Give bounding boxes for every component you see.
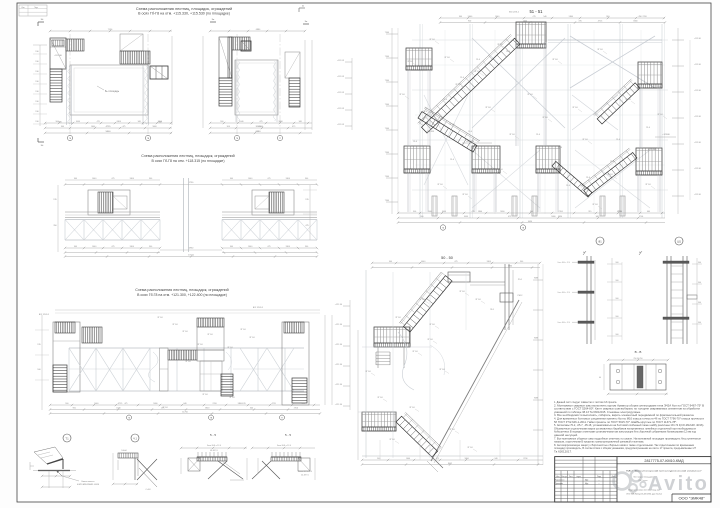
- plan A left stringer band: [66, 65, 68, 125]
- svg-text:Л1-6: Л1-6: [616, 139, 620, 141]
- svg-text:5800: 5800: [117, 121, 121, 123]
- svg-text:+115.530: +115.530: [466, 141, 475, 143]
- svg-text:Л1-6: Л1-6: [450, 159, 454, 161]
- svg-text:+121.30: +121.30: [335, 364, 343, 366]
- sec50 lower landing: [362, 412, 396, 431]
- svg-text:ЛГ1-8: ЛГ1-8: [527, 94, 533, 96]
- svg-text:ЛГ1-8: ЛГ1-8: [462, 194, 468, 196]
- row3 mid upper run: [197, 318, 224, 327]
- svg-text:5800: 5800: [152, 126, 156, 128]
- svg-text:5800: 5800: [278, 121, 282, 123]
- svg-text:ЛГ1-8: ЛГ1-8: [429, 324, 435, 326]
- svg-text:ЛГ1-8: ЛГ1-8: [582, 139, 588, 141]
- detail F1 bubble: [596, 237, 604, 245]
- svg-text:ЛГ1-8: ЛГ1-8: [607, 174, 613, 176]
- svg-text:900: 900: [74, 246, 77, 248]
- plan B axis line 2: [279, 34, 281, 134]
- svg-text:5 - 5: 5 - 5: [210, 433, 216, 437]
- plan A axis line G6: [69, 34, 71, 134]
- svg-text:ЛГ1-8: ЛГ1-8: [377, 397, 383, 399]
- svg-text:В1 12 В-1: В1 12 В-1: [509, 12, 520, 14]
- svg-text:6ь площадь: 6ь площадь: [105, 89, 120, 93]
- svg-text:900: 900: [227, 126, 230, 128]
- svg-text:Подп: Подп: [597, 476, 601, 478]
- row3 mid lower block: [200, 361, 222, 391]
- elevation axis bubble 2: [520, 225, 525, 230]
- svg-text:7500: 7500: [385, 152, 389, 154]
- svg-text:Л1-6: Л1-6: [558, 147, 562, 149]
- svg-text:5800: 5800: [130, 178, 134, 180]
- svg-text:ЛГ1-8: ЛГ1-8: [419, 299, 425, 301]
- svg-text:340: 340: [530, 211, 533, 213]
- row3 right dim lines: [324, 315, 326, 405]
- svg-text:ЛГ1-8: ЛГ1-8: [409, 407, 415, 409]
- row2 plan right half: [221, 180, 318, 254]
- svg-text:Л1-6: Л1-6: [476, 59, 480, 61]
- plan B top dim row: [210, 30, 305, 32]
- svg-text:2706: 2706: [212, 403, 216, 405]
- svg-text:9088: 9088: [534, 338, 538, 340]
- svg-text:2706: 2706: [639, 216, 643, 218]
- plan B top hatched run: [232, 37, 250, 50]
- plan A section flag top: [38, 21, 44, 23]
- plan A axis bubble 2: [145, 135, 150, 140]
- svg-text:+121.30: +121.30: [335, 324, 343, 326]
- svg-text:Болт М-Б х 12.0: Болт М-Б х 12.0: [558, 292, 570, 294]
- svg-text:5800: 5800: [500, 211, 504, 213]
- svg-text:11750: 11750: [182, 412, 188, 414]
- plan A top-left stair box: [50, 38, 66, 69]
- svg-text:60: 60: [599, 377, 601, 379]
- row3 plan top chord lines: [55, 309, 320, 311]
- row3 right tower: [282, 322, 309, 405]
- svg-text:ЛГ1-8: ЛГ1-8: [444, 57, 450, 59]
- svg-text:ЛГ1-8: ЛГ1-8: [429, 39, 435, 41]
- svg-text:900: 900: [74, 178, 77, 180]
- svg-text:+119.30: +119.30: [694, 168, 701, 170]
- svg-text:ЛГ1-8: ЛГ1-8: [227, 347, 233, 349]
- sec50 internal horizontals: [362, 346, 432, 348]
- svg-text:5800: 5800: [569, 16, 573, 18]
- svg-text:В осях Гб.Г8 на отм. +121.300,: В осях Гб.Г8 на отм. +121.300, +122.400 …: [137, 293, 227, 297]
- sec50 lower stair: [396, 412, 441, 457]
- svg-text:340: 340: [250, 408, 253, 410]
- title block: [555, 457, 711, 502]
- svg-text:5800: 5800: [487, 261, 491, 263]
- svg-text:ЛГ1-8: ЛГ1-8: [474, 71, 480, 73]
- row3 axis bubble 1: [127, 415, 132, 420]
- elevation light X bracing: [424, 95, 468, 185]
- svg-text:900: 900: [230, 246, 233, 248]
- svg-text:900: 900: [61, 126, 64, 128]
- plan B axis bubble 2: [277, 135, 282, 140]
- svg-text:ЛГ1-8: ЛГ1-8: [399, 94, 405, 96]
- svg-text:1640: 1640: [495, 16, 499, 18]
- svg-text:+115.53: +115.53: [337, 124, 345, 126]
- svg-text:Разработал: Разработал: [555, 479, 564, 481]
- detail Ch1 bubble: [131, 434, 139, 442]
- row3 left dim stack: [41, 315, 43, 410]
- svg-text:ЛГ1-8: ЛГ1-8: [542, 117, 548, 119]
- svg-text:Ф1: Ф1: [598, 240, 602, 244]
- svg-text:+121.300: +121.300: [648, 149, 657, 151]
- elevation platform legs: [407, 173, 409, 212]
- svg-text:340: 340: [299, 121, 302, 123]
- svg-text:ЛГ1-8: ЛГ1-8: [455, 84, 461, 86]
- elevation platform P1 top: [516, 22, 546, 48]
- svg-text:+121.30: +121.30: [335, 304, 343, 306]
- svg-text:Схема расположения лестниц, пл: Схема расположения лестниц, площадок, ог…: [141, 154, 234, 158]
- svg-text:+115.53: +115.53: [337, 60, 345, 62]
- elevation platform P5 right: [636, 148, 662, 175]
- svg-text:900: 900: [230, 178, 233, 180]
- svg-text:+121.30: +121.30: [335, 384, 343, 386]
- plan B bottom dim rows: [210, 122, 312, 124]
- svg-text:900: 900: [459, 16, 462, 18]
- elevation top beam: [548, 39, 662, 41]
- svg-text:5800: 5800: [633, 21, 637, 23]
- svg-text:7Г: 7Г: [281, 418, 283, 420]
- corner revision block: [19, 5, 47, 16]
- svg-text:5800: 5800: [465, 458, 469, 460]
- row1 mid elevation-mark column: [351, 58, 353, 130]
- svg-text:6930: 6930: [558, 216, 562, 218]
- plan A right hatched stair run: [120, 51, 150, 64]
- elevation pier stubs: [432, 196, 437, 216]
- svg-text:6490: 6490: [528, 221, 532, 223]
- elevation right dim column: [677, 28, 679, 214]
- svg-text:ЛГ1-8: ЛГ1-8: [597, 49, 603, 51]
- elevation stair S1 main: [418, 34, 520, 133]
- svg-text:5800: 5800: [478, 211, 482, 213]
- svg-text:Болт М-Б х 12.0: Болт М-Б х 12.0: [558, 262, 570, 264]
- svg-text:900: 900: [73, 408, 76, 410]
- svg-text:340: 340: [520, 261, 523, 263]
- svg-text:Л1-6: Л1-6: [536, 134, 540, 136]
- svg-text:900: 900: [698, 282, 701, 284]
- svg-text:475: 475: [161, 408, 164, 410]
- svg-text:ЛГ1-8: ЛГ1-8: [182, 331, 188, 333]
- svg-text:+119.30: +119.30: [694, 90, 701, 92]
- svg-text:2706: 2706: [642, 16, 646, 18]
- svg-text:+115.530: +115.530: [54, 55, 61, 57]
- svg-text:Ш1: Ш1: [677, 240, 681, 244]
- svg-text:340: 340: [183, 403, 186, 405]
- row3 right tower ladder: [292, 378, 307, 403]
- svg-text:1640: 1640: [523, 21, 527, 23]
- sec50 left dim line: [357, 330, 359, 460]
- svg-text:ЛГ1-8: ЛГ1-8: [185, 361, 191, 363]
- svg-text:Л1-6: Л1-6: [413, 141, 417, 143]
- svg-text:475: 475: [533, 16, 536, 18]
- svg-text:+121.30: +121.30: [335, 404, 343, 406]
- elevation left dim column: [391, 28, 393, 214]
- row3 left tower: [53, 322, 80, 392]
- detail T1 bubble: [63, 434, 71, 442]
- plan A left ladder stair: [50, 69, 62, 102]
- svg-text:5800: 5800: [286, 178, 290, 180]
- svg-text:44 48 7.0: 44 48 7.0: [301, 475, 309, 477]
- svg-text:7Г: 7Г: [279, 138, 281, 140]
- svg-text:900: 900: [616, 262, 619, 264]
- svg-text:ЛГ1-8: ЛГ1-8: [229, 397, 235, 399]
- svg-text:ЛГ1-8: ЛГ1-8: [395, 317, 401, 319]
- plan B central platform: [235, 60, 278, 115]
- svg-text:51 - 51: 51 - 51: [529, 9, 543, 14]
- elevation light column grid: [419, 24, 421, 218]
- svg-text:+118.315: +118.315: [426, 131, 435, 133]
- svg-text:1640: 1640: [76, 121, 80, 123]
- svg-text:1640: 1640: [421, 261, 425, 263]
- svg-text:Л1-6: Л1-6: [468, 131, 472, 133]
- svg-text:Схема расположения лестниц, пл: Схема расположения лестниц, площадок, ог…: [136, 7, 232, 11]
- row3 truss band: [69, 347, 304, 349]
- plan A section flag bottom: [38, 141, 44, 143]
- svg-text:ООО “ЭМК48”: ООО “ЭМК48”: [678, 496, 705, 501]
- svg-text:В - В: В - В: [635, 350, 642, 354]
- svg-text:Болт М-Б х 12.0: Болт М-Б х 12.0: [207, 445, 221, 447]
- svg-text:340: 340: [305, 178, 308, 180]
- elevation top dim rows: [440, 17, 665, 19]
- svg-text:4715: 4715: [272, 403, 276, 405]
- svg-text:1640: 1640: [406, 458, 410, 460]
- svg-text:475: 475: [111, 246, 114, 248]
- svg-text:340: 340: [494, 458, 497, 460]
- svg-text:1640: 1640: [248, 178, 252, 180]
- row2 plan bottom long dim: [65, 256, 317, 258]
- elevation stair S5: [552, 161, 592, 197]
- detail B-B section: [610, 364, 666, 390]
- elevation stair S3: [418, 107, 480, 152]
- svg-text:ЛГ1-8: ЛГ1-8: [497, 44, 503, 46]
- svg-text:2706: 2706: [294, 408, 298, 410]
- svg-text:5800: 5800: [130, 246, 134, 248]
- row2 plan mid columns: [183, 178, 185, 252]
- svg-text:17150: 17150: [188, 255, 195, 257]
- svg-text:1640: 1640: [248, 246, 252, 248]
- svg-text:В осях Гб-Г8 на отм. +118.315: В осях Гб-Г8 на отм. +118.315 (по площад…: [151, 159, 224, 163]
- plan B left stringer band: [235, 60, 237, 122]
- svg-text:ЛГ1-8: ЛГ1-8: [427, 339, 433, 341]
- sec50 bottom dim rows: [362, 459, 543, 461]
- svg-text:915: 915: [588, 211, 591, 213]
- detail Sh1 bubble: [675, 237, 683, 245]
- svg-text:Л1-6: Л1-6: [423, 111, 427, 113]
- svg-text:475: 475: [292, 126, 295, 128]
- row3 left tower ladder: [53, 365, 67, 392]
- svg-text:340: 340: [596, 216, 599, 218]
- svg-text:900: 900: [468, 21, 471, 23]
- svg-text:7500: 7500: [385, 200, 389, 202]
- sec50 small steps: [376, 351, 390, 353]
- sec50 right column: [504, 264, 506, 330]
- sec50 top small landing: [448, 272, 470, 282]
- row3 axis bubble 2: [209, 415, 214, 420]
- svg-text:5800: 5800: [286, 246, 290, 248]
- svg-text:ЛГ1-8: ЛГ1-8: [509, 134, 515, 136]
- svg-text:6880: 6880: [256, 131, 262, 133]
- svg-text:3140: 3140: [256, 126, 262, 128]
- elevation platform P3: [472, 146, 500, 173]
- sec50 bottom verticals: [379, 440, 381, 460]
- svg-text:7500: 7500: [385, 176, 389, 178]
- svg-text:Л1-6: Л1-6: [646, 127, 650, 129]
- svg-text:475: 475: [124, 403, 127, 405]
- svg-text:Мур: Мур: [585, 483, 588, 485]
- top mid section flag: [299, 7, 305, 9]
- svg-text:ЛГ1-8: ЛГ1-8: [497, 169, 503, 171]
- svg-text:ЛГ1-8: ЛГ1-8: [657, 114, 663, 116]
- elevation platform P7: [536, 146, 560, 173]
- plan B right light box: [285, 52, 300, 78]
- svg-text:340: 340: [305, 246, 308, 248]
- detail 5-5 second: [271, 456, 301, 458]
- svg-text:ЛГ1-8: ЛГ1-8: [407, 61, 413, 63]
- plan A right dark box: [150, 66, 168, 79]
- svg-text:475: 475: [508, 216, 511, 218]
- svg-text:2706: 2706: [523, 458, 527, 460]
- elevation platform P2 left: [406, 48, 432, 70]
- svg-text:ЛГ1-8: ЛГ1-8: [389, 439, 395, 441]
- sec50 upper stair: [399, 272, 452, 332]
- row3 far-right elevation marks: [349, 300, 351, 410]
- svg-text:№док: №док: [576, 475, 581, 478]
- row3 mid narrow strip: [160, 348, 169, 391]
- svg-text:ЛГ1-8: ЛГ1-8: [197, 344, 203, 346]
- svg-text:5800: 5800: [205, 408, 209, 410]
- svg-text:660: 660: [302, 403, 305, 405]
- svg-text:44 48 7.0: 44 48 7.0: [210, 450, 218, 452]
- plan B axis line 1: [236, 34, 238, 134]
- row3 mid middle run: [168, 350, 197, 360]
- elevation platform P6 upper right: [638, 62, 662, 88]
- svg-text:2817775-07-КМ10-КМД: 2817775-07-КМ10-КМД: [644, 459, 684, 463]
- elevation stair S6: [593, 79, 640, 124]
- svg-text:8417: 8417: [448, 463, 452, 465]
- svg-text:900: 900: [698, 322, 701, 324]
- svg-text:ЛГ1-8: ЛГ1-8: [592, 204, 598, 206]
- svg-text:+115.53: +115.53: [337, 92, 345, 94]
- svg-text:340: 340: [149, 178, 152, 180]
- plan B axis bubble 1: [234, 135, 239, 140]
- svg-text:ЛГ1-8: ЛГ1-8: [572, 107, 578, 109]
- svg-text:ЛГ1-8: ЛГ1-8: [437, 184, 443, 186]
- detail Sh1 column: [666, 256, 668, 344]
- svg-text:+119.30: +119.30: [694, 64, 701, 66]
- svg-text:ЛГ1-8: ЛГ1-8: [412, 169, 418, 171]
- svg-text:Болт М-Б х 12.0: Болт М-Б х 12.0: [277, 445, 291, 447]
- svg-text:1640: 1640: [116, 408, 120, 410]
- plan B dark box: [241, 41, 251, 51]
- svg-text:Ч.1: Ч.1: [133, 438, 137, 441]
- svg-text:+121.30: +121.30: [335, 344, 343, 346]
- svg-text:100х8: 100х8: [121, 450, 126, 452]
- row3 left hatch block: [82, 327, 102, 343]
- svg-text:Болты 4.8 х 12.0: Болты 4.8 х 12.0: [298, 471, 312, 473]
- elevation bottom dim rows: [398, 212, 665, 214]
- svg-text:900: 900: [428, 211, 431, 213]
- svg-text:Л1-6: Л1-6: [443, 99, 447, 101]
- svg-text:1640: 1640: [94, 403, 98, 405]
- svg-text:7500: 7500: [385, 56, 389, 58]
- svg-text:900: 900: [65, 403, 68, 405]
- svg-text:475: 475: [472, 211, 475, 213]
- svg-text:Л1-6: Л1-6: [566, 185, 570, 187]
- svg-text:Та 63012017.: Та 63012017.: [554, 451, 572, 454]
- svg-text:Проверил: Проверил: [555, 483, 563, 485]
- svg-text:Лист: Лист: [569, 476, 573, 478]
- svg-text:Avito: Avito: [648, 473, 709, 495]
- plan A central platform: [70, 65, 148, 115]
- svg-text:ЛГ1-8: ЛГ1-8: [475, 299, 481, 301]
- svg-text:475: 475: [111, 178, 114, 180]
- svg-text:ЛГ1-8: ЛГ1-8: [240, 329, 246, 331]
- svg-text:1640: 1640: [91, 126, 95, 128]
- row2 left dim stack: [57, 185, 59, 252]
- svg-text:900: 900: [420, 216, 423, 218]
- svg-text:7500: 7500: [385, 128, 389, 130]
- row3 mid ladder: [221, 374, 233, 396]
- svg-text:9088: 9088: [534, 398, 538, 400]
- svg-text:250 90 250: 250 90 250: [634, 358, 643, 360]
- row2 right dim box: [309, 185, 311, 240]
- svg-text:475: 475: [267, 178, 270, 180]
- svg-text:660: 660: [647, 211, 650, 213]
- svg-text:2706: 2706: [618, 211, 622, 213]
- svg-text:1640: 1640: [239, 121, 243, 123]
- plan A top dim row: [50, 30, 172, 32]
- svg-text:ЛГ1-8: ЛГ1-8: [202, 394, 208, 396]
- svg-text:915: 915: [243, 403, 246, 405]
- svg-text:900: 900: [220, 121, 223, 123]
- svg-text:ЛГ1-8: ЛГ1-8: [412, 351, 418, 353]
- svg-text:2706: 2706: [559, 211, 563, 213]
- svg-text:ЛГ1-8: ЛГ1-8: [645, 184, 651, 186]
- svg-text:1640: 1640: [92, 178, 96, 180]
- sec50 upper landing legs: [377, 347, 379, 368]
- row3 mid gusset curves: [148, 352, 158, 382]
- svg-text:900: 900: [616, 298, 619, 300]
- elevation axis bubble 1: [440, 225, 445, 230]
- svg-text:площадку производить, В соотве: площадку производить, В соответствии с о…: [554, 447, 697, 450]
- svg-text:+115.53: +115.53: [337, 76, 345, 78]
- plan B right stringer band: [276, 60, 278, 122]
- svg-text:Ю1 12 Ю.1: Ю1 12 Ю.1: [39, 314, 50, 316]
- svg-text:4.8/22-М20-Р60/45. 40/16: 4.8/22-М20-Р60/45. 40/16: [77, 484, 99, 486]
- svg-text:ЛГ1-8: ЛГ1-8: [365, 371, 371, 373]
- svg-text:Кол.уч: Кол.уч: [562, 476, 567, 478]
- svg-text:ЛГ1-8: ЛГ1-8: [625, 99, 631, 101]
- svg-text:50 - 50: 50 - 50: [441, 256, 453, 260]
- sec50 upper landing: [374, 327, 410, 347]
- plan B right dim lines: [304, 40, 306, 130]
- svg-text:900: 900: [389, 261, 392, 263]
- svg-text:ЛГ1-8: ЛГ1-8: [249, 337, 255, 339]
- svg-text:Ст3-8: Ст3-8: [146, 489, 151, 491]
- plan A bottom dim rows: [45, 122, 172, 124]
- svg-text:5800: 5800: [106, 131, 112, 133]
- elevation top-right level flag: [655, 136, 676, 138]
- svg-text:ЛГ1-8: ЛГ1-8: [172, 324, 178, 326]
- svg-text:Ю1 12 Ю.1: Ю1 12 Ю.1: [253, 307, 264, 309]
- svg-text:Болт М-Б х 12.0: Болт М-Б х 12.0: [558, 322, 570, 324]
- sec50 lower stair tail: [432, 457, 443, 468]
- plan B left dim line: [202, 36, 204, 128]
- row3 axis bubble 3: [280, 415, 285, 420]
- sec50 right dim lines: [537, 264, 539, 465]
- plan B section flag top: [210, 21, 216, 23]
- sec50 top dim rows: [372, 262, 540, 264]
